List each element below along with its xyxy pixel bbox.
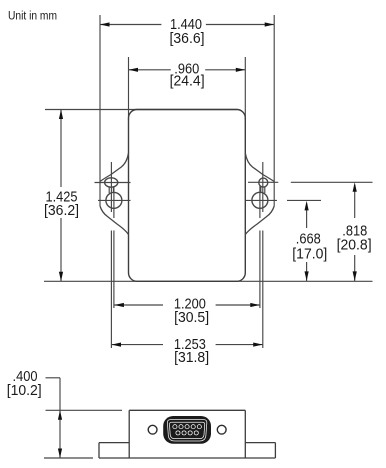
svg-text:[20.8]: [20.8]	[337, 238, 372, 254]
svg-text:Unit in mm: Unit in mm	[8, 11, 57, 23]
extension line left body width (x=128.5)	[128, 57, 130, 120]
side view left flange	[99, 443, 129, 458]
connector pins bottom row	[176, 430, 199, 435]
connector pins top row	[172, 424, 201, 429]
dimension .668 [17.0]	[292, 201, 327, 281]
body outline (top view rounded rectangle)	[129, 110, 246, 282]
left large hole horizontal centerline	[98, 199, 131, 201]
left ear bottom edge	[100, 206, 129, 235]
svg-text:[30.5]: [30.5]	[174, 310, 209, 326]
connector insert outline A	[167, 420, 206, 441]
right ear bottom edge	[245, 206, 274, 235]
extension line left overall width (x=100)	[99, 15, 101, 206]
left small hole horizontal centerline	[95, 182, 131, 184]
svg-text:[10.2]: [10.2]	[7, 383, 42, 399]
left small hole vertical centerline	[110, 162, 112, 348]
svg-text:[36.2]: [36.2]	[44, 203, 79, 219]
left hole neck	[109, 188, 113, 194]
connector DE-9 shell	[163, 416, 211, 444]
extension line right overall width (x=274.2)	[273, 15, 275, 206]
left small hole	[105, 178, 118, 187]
right hole neck	[261, 187, 265, 193]
svg-text:[17.0]: [17.0]	[292, 247, 327, 263]
dimension .818 [20.8]	[337, 182, 372, 281]
side view body	[99, 410, 275, 458]
svg-text:.668: .668	[296, 232, 321, 248]
right ear top edge	[245, 153, 274, 182]
right small hole	[259, 178, 268, 187]
left large hole vertical centerline	[113, 186, 115, 308]
svg-text:[36.6]: [36.6]	[170, 31, 205, 47]
connector left screw hole	[148, 425, 157, 434]
right large hole vertical centerline	[259, 186, 261, 308]
right small hole vertical centerline	[262, 162, 264, 348]
svg-text:[24.4]: [24.4]	[170, 74, 205, 90]
extension line right body width (x=245.3)	[244, 57, 246, 120]
connector right screw hole	[217, 425, 226, 434]
right small hole centerline / .818 reference line	[248, 181, 373, 183]
extension line top of body (y=109.5)	[45, 109, 237, 111]
right large hole centerline / .668 reference line	[246, 199, 321, 201]
dimension 1.200 [30.5]	[114, 297, 259, 326]
connector insert outline B	[169, 422, 204, 438]
svg-text:[31.8]: [31.8]	[174, 350, 209, 366]
side view right flange	[245, 443, 275, 458]
dimension 1.440 [36.6]	[100, 17, 274, 47]
left ear top edge	[100, 153, 129, 182]
right large hole	[252, 192, 268, 208]
dimension .960 [24.4]	[129, 61, 246, 89]
extension line bottom of body (y=281.3)	[44, 280, 373, 282]
dimension .400 [10.2]	[7, 369, 122, 458]
dimension 1.253 [31.8]	[112, 337, 263, 366]
left large hole	[106, 192, 122, 208]
dimension 1.425 [36.2]	[44, 110, 79, 282]
